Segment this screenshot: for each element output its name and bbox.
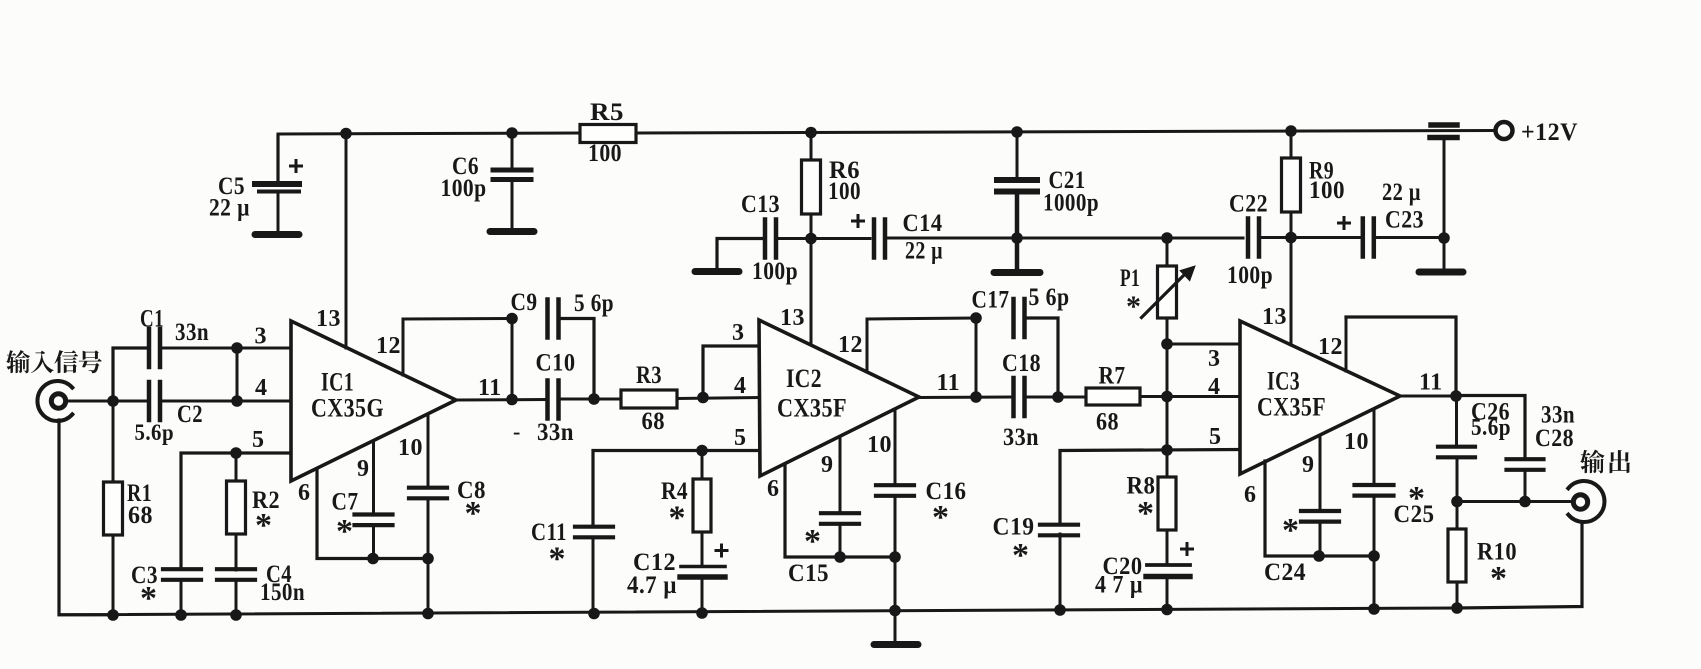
node: C16 bottom junction <box>889 551 901 563</box>
wire: link pin3-pin4 node <box>1166 344 1169 396</box>
wire: link pin4-pin5 node <box>1166 396 1169 450</box>
wire: C6 to ground bar <box>511 182 514 229</box>
node: R10 at bottom rail <box>1451 602 1463 614</box>
svg-text:4 7 µ: 4 7 µ <box>1095 572 1143 599</box>
wire: C13 to R6 node <box>778 237 870 240</box>
wire: C14 to C22 <box>888 237 1243 240</box>
wire: R4 down to C12 <box>701 532 704 564</box>
wire: P1 from decoupling rail <box>1166 238 1169 266</box>
svg-text:3: 3 <box>255 324 268 350</box>
wire: IC3 pin5 across to C19 corner <box>1060 450 1241 523</box>
terminal: input connector outer <box>37 381 72 421</box>
svg-text:9: 9 <box>357 456 370 482</box>
node: C9 left junction <box>506 313 518 325</box>
node: R9 at decoupling rail <box>1285 232 1297 244</box>
wire: IC2 output to C18 <box>919 396 1011 400</box>
capacitor C14 electrolytic <box>872 220 877 258</box>
svg-text:*: * <box>804 523 822 560</box>
node: R1 at bottom rail <box>107 609 119 621</box>
wire: C21 to ground <box>1015 194 1020 270</box>
svg-text:68: 68 <box>1096 409 1119 436</box>
svg-text:CX35F: CX35F <box>1257 393 1326 422</box>
wire: IC1 output to C10 <box>456 398 545 402</box>
polarity + of C5 <box>291 165 302 168</box>
capacitor C20 electrolytic <box>1147 563 1190 567</box>
capacitor C23 electrolytic <box>1361 219 1366 257</box>
wire: feed-through down to decoupling rail <box>1443 139 1446 238</box>
wire: input junction to C2 <box>113 400 147 403</box>
capacitor C19 <box>1040 523 1078 527</box>
wire: link C17 left to output <box>975 318 978 397</box>
wire: bottom rail down to ground bar <box>894 611 897 641</box>
capacitor C18 <box>1011 378 1016 416</box>
svg-text:100p: 100p <box>441 175 487 202</box>
svg-text:IC3: IC3 <box>1267 367 1300 396</box>
wire: IC3 pin10 down to C25 <box>1373 410 1376 485</box>
svg-text:IC2: IC2 <box>786 364 822 393</box>
node: C25 at bottom rail <box>1368 603 1380 615</box>
node: input junction <box>107 395 119 407</box>
capacitor C25 <box>1355 483 1394 487</box>
capacitor C3 <box>163 567 201 571</box>
svg-text:100: 100 <box>828 178 861 205</box>
wire: C11 down to bottom rail <box>592 538 595 614</box>
wire: link C9 left to output <box>511 319 514 400</box>
op-amp IC1 CX35G triangle <box>291 321 456 481</box>
svg-text:33n: 33n <box>175 319 209 346</box>
wire: C8 down to bottom rail <box>427 498 430 614</box>
wire: C1 to IC1 pin3 <box>162 347 292 350</box>
resistor R6 <box>802 160 821 214</box>
wire: IC2 pin13 riser to decoupling node <box>810 238 813 344</box>
svg-text:5: 5 <box>1209 424 1222 450</box>
svg-text:22 µ: 22 µ <box>1382 179 1421 206</box>
svg-text:C22: C22 <box>1229 191 1268 218</box>
svg-text:68: 68 <box>642 408 666 435</box>
capacitor C28 <box>1507 457 1544 461</box>
svg-text:100p: 100p <box>752 258 798 285</box>
terminal: input connector inner <box>51 394 65 408</box>
svg-text:68: 68 <box>128 502 153 529</box>
capacitor C13 <box>763 220 768 258</box>
capacitor C12 electrolytic <box>681 565 725 569</box>
wire: IC3 pin12 top loop <box>1346 317 1456 396</box>
node: feed-through at decoupling rail <box>1438 232 1450 244</box>
wire: input to junction <box>66 400 113 403</box>
svg-text:C7: C7 <box>332 489 359 516</box>
wire: low node down to R10 <box>1456 501 1459 529</box>
svg-text:5 6p: 5 6p <box>1029 284 1070 311</box>
resistor R2 <box>227 481 246 534</box>
terminal: output connector inner <box>1573 495 1587 509</box>
svg-text:R7: R7 <box>1099 363 1126 390</box>
op-amp IC2 CX35F triangle <box>759 320 919 476</box>
wire: IC2 pin5 across to C11 corner <box>593 451 760 526</box>
svg-text:*: * <box>465 495 483 532</box>
wire: output connector down <box>1457 522 1582 608</box>
wire: input connector down <box>59 420 113 615</box>
node: C8 bottom junction <box>422 553 434 565</box>
svg-text:C1: C1 <box>140 306 164 333</box>
wire: R1 to bottom rail <box>112 535 115 616</box>
wire: IC3 pin12 riser <box>1345 317 1348 371</box>
ground bar right <box>1419 269 1463 276</box>
wire: C28 down to low node <box>1524 470 1527 501</box>
svg-text:13: 13 <box>1262 304 1287 330</box>
node: rail junction at R9 <box>1285 125 1297 137</box>
svg-text:C18: C18 <box>1002 350 1041 377</box>
wire: IC3 output to C26 node <box>1400 395 1456 398</box>
potentiometer P1 <box>1158 266 1177 318</box>
capacitor C22 <box>1246 219 1251 257</box>
svg-text:3: 3 <box>1208 346 1221 372</box>
wire: C17 right elbow down <box>1027 318 1058 397</box>
svg-text:5: 5 <box>252 427 265 453</box>
svg-text:6: 6 <box>1244 482 1257 508</box>
node: IC3 pin3 junction <box>1161 338 1173 350</box>
capacitor C10 <box>545 381 550 419</box>
svg-text:22 µ: 22 µ <box>209 195 250 222</box>
wire: R7 to P1 node <box>1140 395 1167 398</box>
wire: pin4 to IC3 <box>1167 395 1241 398</box>
label shuru xinhao (input signal) <box>6 350 30 373</box>
node: rail junction at C21 <box>1011 126 1023 138</box>
wire: C15 to pin6 net <box>839 524 842 557</box>
svg-text:100: 100 <box>1309 177 1345 204</box>
wire: rail corner down to C5 <box>276 136 279 181</box>
node: C21 at decoupling rail <box>1011 232 1023 244</box>
wire: rail down to R9 <box>1290 131 1293 158</box>
wire: IC2 pin10 down to C16 <box>894 410 897 483</box>
svg-text:*: * <box>255 507 273 544</box>
node: rail junction at C6 <box>506 127 518 139</box>
node: C12 at bottom rail <box>696 607 708 619</box>
node: C7 bottom junction <box>367 553 379 565</box>
svg-text:C14: C14 <box>903 210 943 237</box>
capacitor C26 <box>1438 445 1475 449</box>
node: R2 at pin5 wire <box>230 447 242 459</box>
node: output junction at C10 left <box>506 394 518 406</box>
svg-text:10: 10 <box>398 435 423 461</box>
polarity + of C20 <box>1182 548 1193 551</box>
wire: rail down to R6 <box>810 133 813 160</box>
capacitor C6 <box>493 168 531 173</box>
node: output junction at C18 left <box>970 391 982 403</box>
polarity + of C14 <box>853 220 864 223</box>
node: C16 at bottom rail <box>889 605 901 617</box>
wire: C12 down to bottom rail <box>701 579 704 614</box>
svg-text:IC1: IC1 <box>321 368 354 397</box>
wire: IC1 pin12 riser <box>402 319 405 375</box>
wire: C25 down to bottom rail <box>1373 496 1376 610</box>
capacitor C17 <box>1011 299 1016 337</box>
wire: C20 down to bottom rail <box>1166 578 1169 611</box>
svg-text:6: 6 <box>298 480 311 506</box>
ground bar below C6 <box>490 228 534 235</box>
svg-text:4: 4 <box>1208 374 1221 400</box>
node: IC3 pin4 junction <box>1161 391 1173 403</box>
svg-text:22 µ: 22 µ <box>905 238 943 265</box>
wire: R3 to IC2 pin4 <box>677 398 760 399</box>
svg-text:5.6p: 5.6p <box>1471 415 1511 441</box>
wire: IC3 pin13 riser to decoupling node <box>1290 238 1293 345</box>
svg-text:11: 11 <box>478 375 502 401</box>
node: rail junction at R6 <box>805 127 817 139</box>
svg-text:*: * <box>1012 537 1030 574</box>
node: C17/C18 right at output wire <box>1052 391 1064 403</box>
polarity + of C23 <box>1339 222 1350 225</box>
capacitor C24 <box>1301 509 1339 513</box>
svg-text:*: * <box>932 499 950 536</box>
wire: C3 to bottom rail <box>180 580 183 616</box>
svg-text:-: - <box>513 419 521 444</box>
wire: rail down to C6 <box>511 134 514 168</box>
wire: IC1 pin12 to C9 <box>403 317 512 321</box>
capacitor C21 <box>997 177 1037 183</box>
wire: C23 to feed-through node <box>1376 236 1444 239</box>
svg-text:*: * <box>336 513 354 550</box>
wire: output node down to C26 <box>1455 396 1458 447</box>
node: IC2 pins3-4 link at pin4 <box>697 392 709 404</box>
svg-text:CX35G: CX35G <box>311 394 384 423</box>
node: C3 at bottom rail <box>175 609 187 621</box>
wire: input junction down to R1 <box>112 401 115 482</box>
svg-text:1000p: 1000p <box>1043 190 1099 217</box>
wire: IC2 pin6 down and across <box>785 464 895 557</box>
wire: IC1 pin6 down and across <box>317 470 428 559</box>
node: C15 bottom junction <box>834 551 846 563</box>
wire: pin5 down to R2 <box>235 453 238 481</box>
capacitor C7 <box>355 512 393 516</box>
power feed-through symbol upper bar <box>1431 122 1457 128</box>
svg-text:100: 100 <box>588 140 622 167</box>
wire: IC2 pin12 riser <box>866 319 869 369</box>
wire: C5 to ground bar <box>277 193 280 232</box>
svg-text:4.7 µ: 4.7 µ <box>627 572 677 599</box>
node: R4 at pin5 wire <box>696 445 708 457</box>
node: rail junction at IC1 pin13 <box>340 128 352 140</box>
svg-text:150n: 150n <box>260 579 305 606</box>
svg-text:12: 12 <box>838 332 863 358</box>
node: IC3 pin5 junction <box>1161 444 1173 456</box>
svg-text:12: 12 <box>376 333 401 359</box>
resistor R7 <box>1086 388 1140 405</box>
power feed-through symbol lower bar <box>1430 135 1457 141</box>
label shuchu (output) <box>1580 450 1604 474</box>
wire: R6 to decoupling node <box>810 214 813 238</box>
node: C20 at bottom rail <box>1161 604 1173 616</box>
svg-text:+12V: +12V <box>1521 119 1578 146</box>
node: C9/C10 right at output wire <box>588 393 600 405</box>
resistor R3 <box>621 390 677 408</box>
node: P1 at decoupling rail <box>1161 232 1173 244</box>
svg-text:11: 11 <box>1419 370 1443 396</box>
svg-text:33n: 33n <box>537 419 574 446</box>
capacitor C2 <box>147 382 152 420</box>
wire: link pins 3-4 of IC1 <box>236 348 239 401</box>
capacitor C16 <box>876 483 914 487</box>
svg-text:C2: C2 <box>177 401 203 428</box>
svg-text:C15: C15 <box>788 560 829 587</box>
capacitor C4 <box>217 567 255 571</box>
svg-text:6: 6 <box>767 476 780 502</box>
svg-text:C24: C24 <box>1264 559 1306 586</box>
resistor R4 <box>693 479 711 532</box>
wire: rail down to C21 <box>1016 133 1019 177</box>
svg-text:*: * <box>1137 495 1155 532</box>
node: C17 left junction <box>970 312 982 324</box>
wire: pin5 node down to R8 <box>1166 450 1169 477</box>
wire: IC3 pin6 down and across <box>1265 461 1374 556</box>
svg-text:5.6p: 5.6p <box>135 420 175 445</box>
wire: R9 to decoupling node <box>1290 212 1293 238</box>
wire: C19 down to bottom rail <box>1059 534 1062 611</box>
svg-text:5: 5 <box>734 425 747 451</box>
wire: C7 to pin6 net <box>372 525 375 558</box>
op-amp IC3 CX35F triangle <box>1240 321 1400 474</box>
node: pin3 link junction <box>231 342 243 354</box>
node: C28 bottom junction <box>1519 496 1531 508</box>
svg-text:C28: C28 <box>1535 425 1574 452</box>
wire: IC1 pin13 to +12V rail <box>345 134 348 348</box>
svg-text:12: 12 <box>1318 334 1343 360</box>
svg-text:CX35F: CX35F <box>777 394 847 423</box>
capacitor C8 <box>409 486 447 490</box>
svg-text:10: 10 <box>867 432 892 458</box>
wire: C16 down to bottom rail <box>894 496 897 611</box>
svg-text:13: 13 <box>780 305 805 331</box>
svg-text:*: * <box>1490 560 1508 597</box>
node: C26 bottom junction <box>1451 496 1463 508</box>
wire: IC2 pin12 to C17 <box>867 318 976 319</box>
wire: C22 to C23 <box>1262 236 1360 239</box>
svg-text:P1: P1 <box>1120 265 1140 292</box>
wire: pin5 down to R4 <box>701 451 704 480</box>
resistor R1 <box>104 482 123 535</box>
wire: C4 to bottom rail <box>235 580 238 616</box>
svg-text:13: 13 <box>316 306 341 332</box>
wire: down to ground bar <box>1443 238 1446 269</box>
wire: R2 down to C4 <box>235 534 238 570</box>
svg-text:*: * <box>1282 512 1300 549</box>
svg-text:C23: C23 <box>1385 207 1424 234</box>
wire: C18 to R7 <box>1027 396 1086 399</box>
svg-text:33n: 33n <box>1003 424 1039 451</box>
svg-text:11: 11 <box>937 370 961 396</box>
capacitor C11 <box>575 525 613 529</box>
polarity + of C12 <box>716 549 727 552</box>
node: C11 at bottom rail <box>588 608 600 620</box>
wire: R8 down to C20 <box>1166 530 1169 562</box>
wire: IC2 pins3-4 link riser <box>703 346 760 398</box>
node: C24 bottom junction <box>1313 550 1325 562</box>
node: R6/C13/C14/IC2pin13 junction <box>805 233 817 245</box>
resistor R9 <box>1282 158 1301 212</box>
capacitor C5 electrolytic <box>255 181 299 187</box>
svg-text:4: 4 <box>734 373 747 399</box>
ground bar at C13 <box>695 268 739 275</box>
ground bar below C5 <box>255 231 299 238</box>
capacitor C1 <box>147 329 152 367</box>
svg-text:C10: C10 <box>536 350 576 377</box>
svg-text:*: * <box>549 541 567 578</box>
svg-text:3: 3 <box>732 320 745 346</box>
capacitor C15 <box>821 511 859 515</box>
wire: IC3 pin9 down to C24 <box>1319 436 1322 511</box>
svg-text:R3: R3 <box>636 362 662 389</box>
wire: C26 down to low node <box>1456 458 1459 501</box>
svg-text:*: * <box>1408 480 1426 517</box>
wire: bottom ground rail <box>59 608 1458 615</box>
wire: P1 down to pin3 node <box>1166 318 1169 344</box>
svg-text:9: 9 <box>821 452 834 478</box>
svg-text:*: * <box>669 500 687 537</box>
wire: IC1 pin9 down to C7 <box>372 441 375 515</box>
node: C25 bottom junction <box>1368 550 1380 562</box>
svg-text:4: 4 <box>255 375 268 401</box>
terminal +12V circle <box>1496 122 1513 139</box>
svg-text:R5: R5 <box>590 99 624 126</box>
resistor R5 <box>580 125 636 143</box>
node: C19 at bottom rail <box>1054 604 1066 616</box>
wire: input junction up to C1 row <box>113 348 147 401</box>
svg-text:C13: C13 <box>741 191 780 218</box>
node: pin4 link junction <box>231 395 243 407</box>
wire: IC1 pin10 down to C8 <box>427 414 430 488</box>
wire: +12V top rail left segment <box>278 133 580 134</box>
svg-text:*: * <box>1126 290 1142 323</box>
wire: low node to output connector <box>1457 500 1572 503</box>
node: feedback at output3 <box>1450 390 1462 402</box>
wire: ground stub to C13 <box>717 239 762 270</box>
terminal: output connector outer <box>1568 481 1604 522</box>
svg-text:9: 9 <box>1302 452 1315 478</box>
wire: C9 to right elbow and down <box>561 319 594 400</box>
wire: C2 to IC1 pin4 <box>162 400 292 403</box>
svg-text:5 6p: 5 6p <box>574 290 614 317</box>
ground bar below C21 <box>994 269 1040 276</box>
ground bar below IC2 <box>874 641 918 648</box>
wire: +12V top rail right segment <box>636 131 1496 134</box>
resistor R10 <box>1448 529 1466 582</box>
wire: R10 down to bottom rail <box>1456 582 1459 609</box>
svg-text:C9: C9 <box>511 289 538 316</box>
svg-text:C17: C17 <box>972 287 1010 314</box>
node: C4 at bottom rail <box>230 609 242 621</box>
node: C8 at bottom rail <box>422 608 434 620</box>
wire: output to C28 elbow <box>1456 396 1525 457</box>
resistor R8 <box>1158 477 1176 530</box>
svg-text:10: 10 <box>1344 429 1369 455</box>
arrow of P1 <box>1142 273 1187 318</box>
wire: IC1 pin5 to C3 corner <box>181 453 292 566</box>
svg-text:100p: 100p <box>1227 262 1273 289</box>
wire: C10 to R3 <box>561 398 621 401</box>
wire: C24 to pin6 net <box>1319 522 1322 556</box>
wire: IC2 pin9 down to C15 <box>839 437 842 513</box>
wire: pin3 to IC3 <box>1167 343 1241 346</box>
capacitor C9 <box>545 300 550 338</box>
svg-text:*: * <box>140 580 158 617</box>
